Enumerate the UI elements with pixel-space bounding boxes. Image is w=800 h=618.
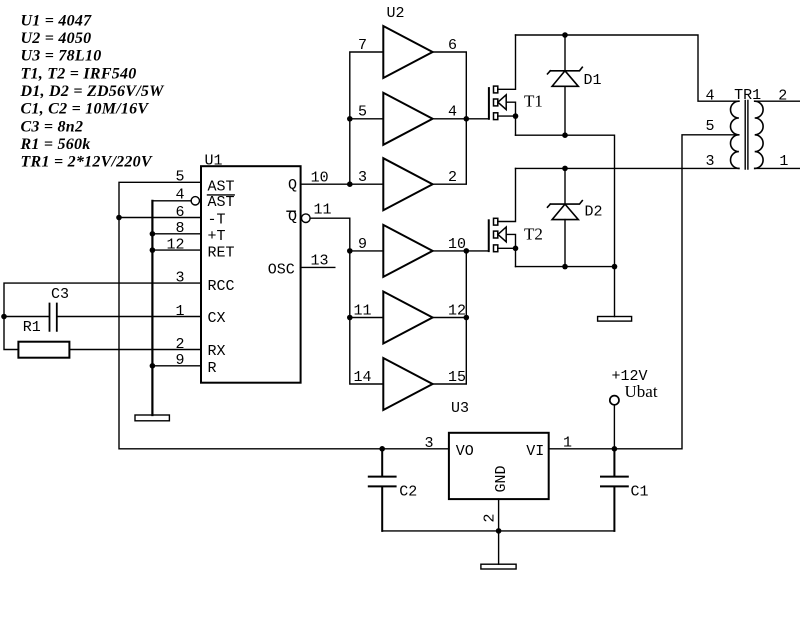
svg-text:15: 15	[448, 369, 466, 386]
svg-text:1: 1	[175, 303, 184, 320]
svg-text:C3 = 8n2: C3 = 8n2	[21, 118, 84, 135]
svg-text:TR1: TR1	[734, 87, 761, 104]
svg-text:2: 2	[448, 169, 457, 186]
svg-text:D1, D2 = ZD56V/5W: D1, D2 = ZD56V/5W	[20, 83, 166, 100]
svg-text:3: 3	[358, 169, 367, 186]
svg-text:7: 7	[358, 37, 367, 54]
svg-text:1: 1	[563, 435, 572, 452]
svg-text:12: 12	[166, 237, 184, 254]
svg-text:GND: GND	[493, 465, 510, 492]
svg-text:12: 12	[448, 303, 466, 320]
svg-text:3: 3	[175, 270, 184, 287]
svg-text:Ubat: Ubat	[625, 382, 658, 401]
svg-text:D1: D1	[584, 72, 602, 89]
svg-text:T2: T2	[524, 224, 543, 243]
svg-text:U3: U3	[451, 400, 469, 417]
svg-text:4: 4	[448, 104, 457, 121]
svg-text:1: 1	[779, 153, 788, 170]
svg-text:2: 2	[482, 513, 499, 522]
svg-text:AST: AST	[208, 194, 235, 211]
svg-text:11: 11	[314, 202, 332, 219]
svg-text:6: 6	[448, 37, 457, 54]
svg-text:C1, C2 = 10M/16V: C1, C2 = 10M/16V	[21, 101, 150, 118]
svg-text:RET: RET	[208, 245, 235, 262]
svg-text:10: 10	[311, 169, 329, 186]
svg-text:VI: VI	[526, 443, 544, 460]
svg-text:VO: VO	[456, 443, 474, 460]
svg-text:R1: R1	[23, 319, 41, 336]
svg-text:3: 3	[705, 153, 714, 170]
svg-text:10: 10	[448, 236, 466, 253]
svg-text:9: 9	[175, 352, 184, 369]
svg-text:U2 = 4050: U2 = 4050	[21, 30, 92, 47]
svg-text:AST: AST	[208, 178, 235, 195]
svg-text:T1: T1	[524, 92, 543, 111]
svg-text:5: 5	[175, 169, 184, 186]
svg-text:2: 2	[778, 88, 787, 105]
svg-text:U1 = 4047: U1 = 4047	[21, 13, 93, 30]
svg-text:U2: U2	[387, 5, 405, 22]
svg-text:R1 = 560k: R1 = 560k	[20, 136, 91, 153]
svg-text:4: 4	[705, 88, 714, 105]
svg-text:14: 14	[353, 369, 371, 386]
svg-text:T1, T2 = IRF540: T1, T2 = IRF540	[21, 65, 137, 82]
svg-text:Q: Q	[288, 177, 297, 194]
svg-text:U3 = 78L10: U3 = 78L10	[21, 48, 102, 65]
svg-text:C3: C3	[51, 286, 69, 303]
svg-text:-T: -T	[208, 212, 226, 229]
svg-text:RCC: RCC	[208, 278, 235, 295]
svg-text:TR1 = 2*12V/220V: TR1 = 2*12V/220V	[21, 154, 153, 171]
svg-text:D2: D2	[585, 203, 603, 220]
svg-text:4: 4	[175, 186, 184, 203]
svg-text:C2: C2	[399, 484, 417, 501]
svg-text:RX: RX	[208, 343, 226, 360]
svg-text:3: 3	[424, 435, 433, 452]
svg-text:5: 5	[705, 118, 714, 135]
svg-text:U1: U1	[205, 153, 223, 170]
svg-text:9: 9	[358, 236, 367, 253]
svg-text:13: 13	[311, 253, 329, 270]
svg-text:C1: C1	[631, 484, 649, 501]
svg-text:OSC: OSC	[268, 262, 295, 279]
svg-text:8: 8	[175, 220, 184, 237]
svg-text:2: 2	[175, 336, 184, 353]
svg-text:5: 5	[358, 104, 367, 121]
svg-text:CX: CX	[208, 310, 226, 327]
svg-text:6: 6	[175, 204, 184, 221]
svg-text:11: 11	[353, 303, 371, 320]
svg-text:Q: Q	[288, 209, 297, 226]
svg-text:+T: +T	[208, 228, 226, 245]
svg-text:R: R	[208, 360, 217, 377]
